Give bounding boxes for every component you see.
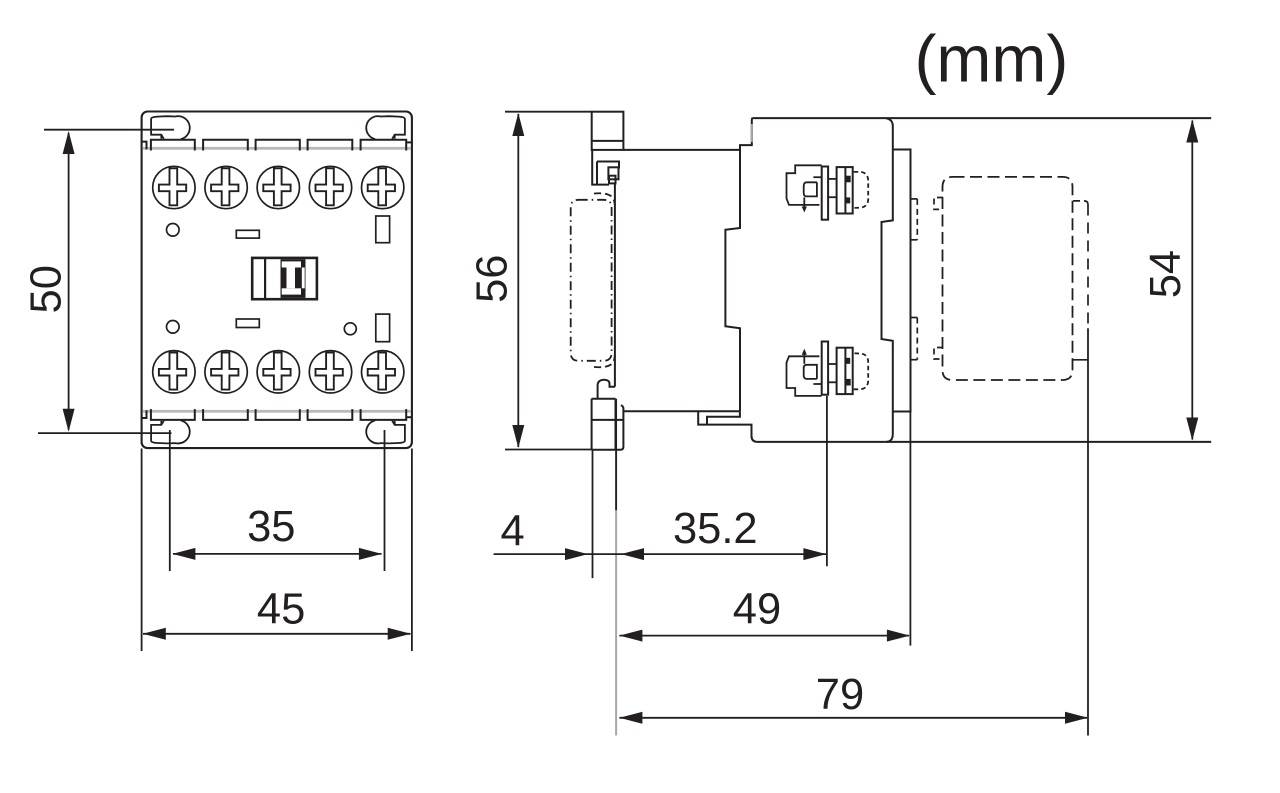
svg-text:35.2: 35.2 bbox=[673, 505, 758, 553]
hidden edge arc top bbox=[594, 193, 615, 205]
hidden flange recess (dash-dot) bbox=[571, 200, 612, 361]
contactor body outline bbox=[142, 112, 412, 449]
central actuator latch bbox=[252, 258, 317, 299]
accessory rear edge step (dashed) bbox=[1072, 201, 1088, 360]
terminal clamp top bbox=[787, 165, 869, 219]
screw 8 bottom row bbox=[257, 351, 299, 393]
extension line rear plate bbox=[909, 412, 911, 646]
top strip with mounting clips bbox=[142, 116, 412, 150]
DIN-rail clip hook bottom bbox=[598, 380, 615, 399]
dimension 50 (front height) bbox=[38, 130, 174, 433]
dimension 4 and 35.2 bbox=[494, 553, 826, 555]
svg-text:50: 50 bbox=[22, 265, 70, 313]
extension line coil terminal bbox=[826, 396, 828, 566]
front flange top block bbox=[592, 112, 740, 150]
indicator hole lower right bbox=[344, 323, 356, 335]
dimension 54 (accessory height) bbox=[1191, 121, 1193, 440]
dimension 45 (front width) bbox=[142, 449, 412, 652]
dimension 79 (total depth) bbox=[619, 717, 1087, 719]
screw 10 bottom row bbox=[362, 351, 404, 393]
svg-text:(mm): (mm) bbox=[914, 22, 1068, 96]
front flange bottom block bbox=[592, 399, 740, 450]
gray portion of front step edge bbox=[751, 124, 753, 142]
hidden edge arc bottom bbox=[594, 356, 615, 368]
accessory mounting hook bottom (dashed) bbox=[934, 348, 943, 360]
indicator hole lower left bbox=[167, 321, 180, 334]
dimension 49 bbox=[619, 635, 909, 637]
accessory mounting hook top (dashed) bbox=[934, 198, 943, 210]
rear plate hidden notch top bbox=[911, 199, 918, 240]
rear plate hidden notch bottom bbox=[911, 318, 918, 360]
marking window upper bbox=[236, 230, 259, 238]
marking window lower bbox=[236, 319, 259, 328]
bottom strip with mounting clips (mirrored) bbox=[142, 409, 412, 443]
screw 9 bottom row bbox=[309, 351, 351, 393]
svg-text:35: 35 bbox=[247, 503, 295, 551]
screw 1 top row bbox=[153, 166, 195, 208]
main body outline (side) bbox=[698, 118, 1211, 442]
dimension 56 (side height front) bbox=[505, 112, 592, 450]
svg-text:79: 79 bbox=[816, 671, 864, 719]
indicator hole upper left bbox=[167, 224, 180, 237]
extension line flange front face bbox=[592, 450, 594, 578]
screw 6 bottom row bbox=[153, 351, 195, 393]
screw 7 bottom row bbox=[205, 351, 247, 393]
DIN-rail clip hook top bbox=[592, 150, 619, 387]
accessory block outline (dashed) bbox=[943, 177, 1073, 380]
screw 5 top row bbox=[362, 166, 404, 208]
flange rear face projection line (dark then gray) bbox=[615, 399, 617, 511]
screw 4 top row bbox=[309, 166, 351, 208]
extension line accessory rear bbox=[1087, 328, 1089, 735]
screw 3 top row bbox=[257, 166, 299, 208]
slot lower right bbox=[376, 314, 390, 342]
terminal clamp bottom (mirrored) bbox=[787, 342, 869, 396]
dimension 35 (fixing hole distance) bbox=[170, 430, 385, 571]
svg-text:54: 54 bbox=[1142, 250, 1190, 298]
svg-text:49: 49 bbox=[733, 586, 781, 634]
slot upper right bbox=[376, 216, 390, 243]
svg-text:4: 4 bbox=[500, 508, 524, 556]
screw 2 top row bbox=[205, 166, 247, 208]
svg-text:45: 45 bbox=[257, 586, 305, 634]
svg-text:56: 56 bbox=[469, 255, 517, 303]
